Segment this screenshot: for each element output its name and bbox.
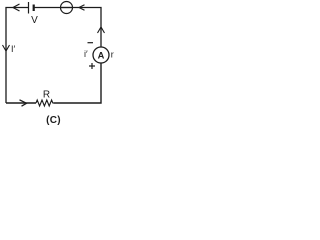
circle component on top wire [61,2,73,14]
svg-text:I′: I′ [11,44,16,54]
plus polarity mark [89,63,95,69]
svg-text:r: r [111,50,114,60]
battery V short plate [33,5,35,12]
current arrow on right wire (pointing up) [98,27,105,33]
wire top-right segment [35,8,102,48]
wire bottom-left segment [6,102,36,104]
wire through circle [61,7,73,9]
current arrow on bottom wire (pointing right) [20,100,27,106]
svg-text:i′: i′ [84,49,88,59]
resistor R zigzag [36,100,54,106]
current arrow on top wire (left, pointing left) [13,4,20,11]
current arrow on top wire (right of circle, pointing left) [79,5,85,10]
ammeter A circle [93,47,109,63]
minus polarity mark [88,42,94,44]
svg-text:A: A [98,51,105,61]
svg-text:(C): (C) [46,115,61,126]
battery V long plate [28,2,30,14]
wire top-left segment [6,8,28,104]
current arrow on left wire (pointing down) [3,45,10,51]
wire bottom-right segment [54,63,102,103]
svg-text:V: V [31,15,38,26]
svg-text:R: R [43,90,50,101]
